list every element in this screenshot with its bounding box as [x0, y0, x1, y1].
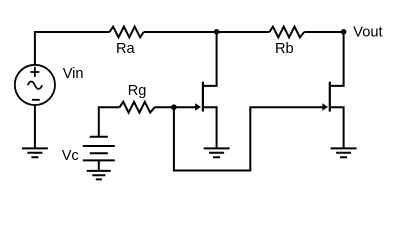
resistor Rb — [269, 27, 304, 38]
node gate junction — [171, 104, 177, 110]
node drain Q1 junction — [214, 29, 220, 35]
ground Q1 source — [204, 148, 230, 157]
svg-text:Rg: Rg — [128, 83, 147, 99]
transistor Q2 — [322, 32, 343, 148]
wire battery to ground — [98, 160, 100, 171]
wire Rb to Vout — [304, 31, 343, 33]
node Vout — [341, 29, 347, 35]
wire Rg left to battery Vc — [99, 107, 120, 137]
svg-text:Vout: Vout — [353, 24, 382, 40]
resistor Rg — [120, 102, 155, 113]
svg-text:Vin: Vin — [63, 66, 84, 82]
svg-text:Ra: Ra — [116, 41, 136, 57]
voltage source Vin — [15, 65, 55, 105]
wire Rg to Q1 gate — [155, 106, 199, 108]
wire Vin top to Ra — [35, 32, 110, 65]
transistor Q1 — [195, 32, 216, 148]
ground Q2 source — [331, 148, 357, 157]
svg-text:Rb: Rb — [275, 41, 294, 57]
battery Vc — [83, 137, 115, 161]
ground Vin — [22, 148, 48, 157]
wire Ra to Rb — [144, 31, 270, 33]
svg-text:Vc: Vc — [62, 148, 79, 164]
wire gate junction to Q2 gate — [174, 107, 326, 170]
wire Vin bottom to ground — [34, 105, 36, 148]
ground Vc — [87, 171, 111, 180]
resistor Ra — [110, 27, 144, 38]
